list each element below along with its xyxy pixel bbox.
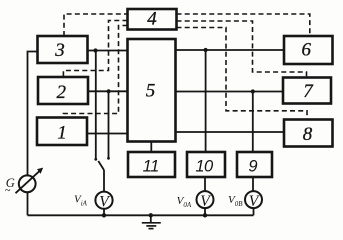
svg-text:ViA: ViA [74,193,88,207]
svg-text:10: 10 [195,157,214,175]
svg-text:5: 5 [146,81,156,102]
svg-text:2: 2 [57,82,67,103]
svg-text:V: V [249,193,260,210]
svg-text:V0B: V0B [228,194,243,208]
svg-text:8: 8 [303,124,313,145]
svg-text:1: 1 [57,123,67,144]
svg-text:V: V [99,193,110,210]
svg-text:V: V [200,193,211,210]
svg-text:9: 9 [248,157,257,175]
svg-text:6: 6 [302,40,312,61]
svg-text:~: ~ [5,186,11,197]
svg-text:V0A: V0A [177,195,192,209]
svg-text:11: 11 [143,157,159,175]
svg-text:3: 3 [54,40,65,61]
svg-text:4: 4 [147,9,157,30]
svg-text:7: 7 [303,81,314,102]
